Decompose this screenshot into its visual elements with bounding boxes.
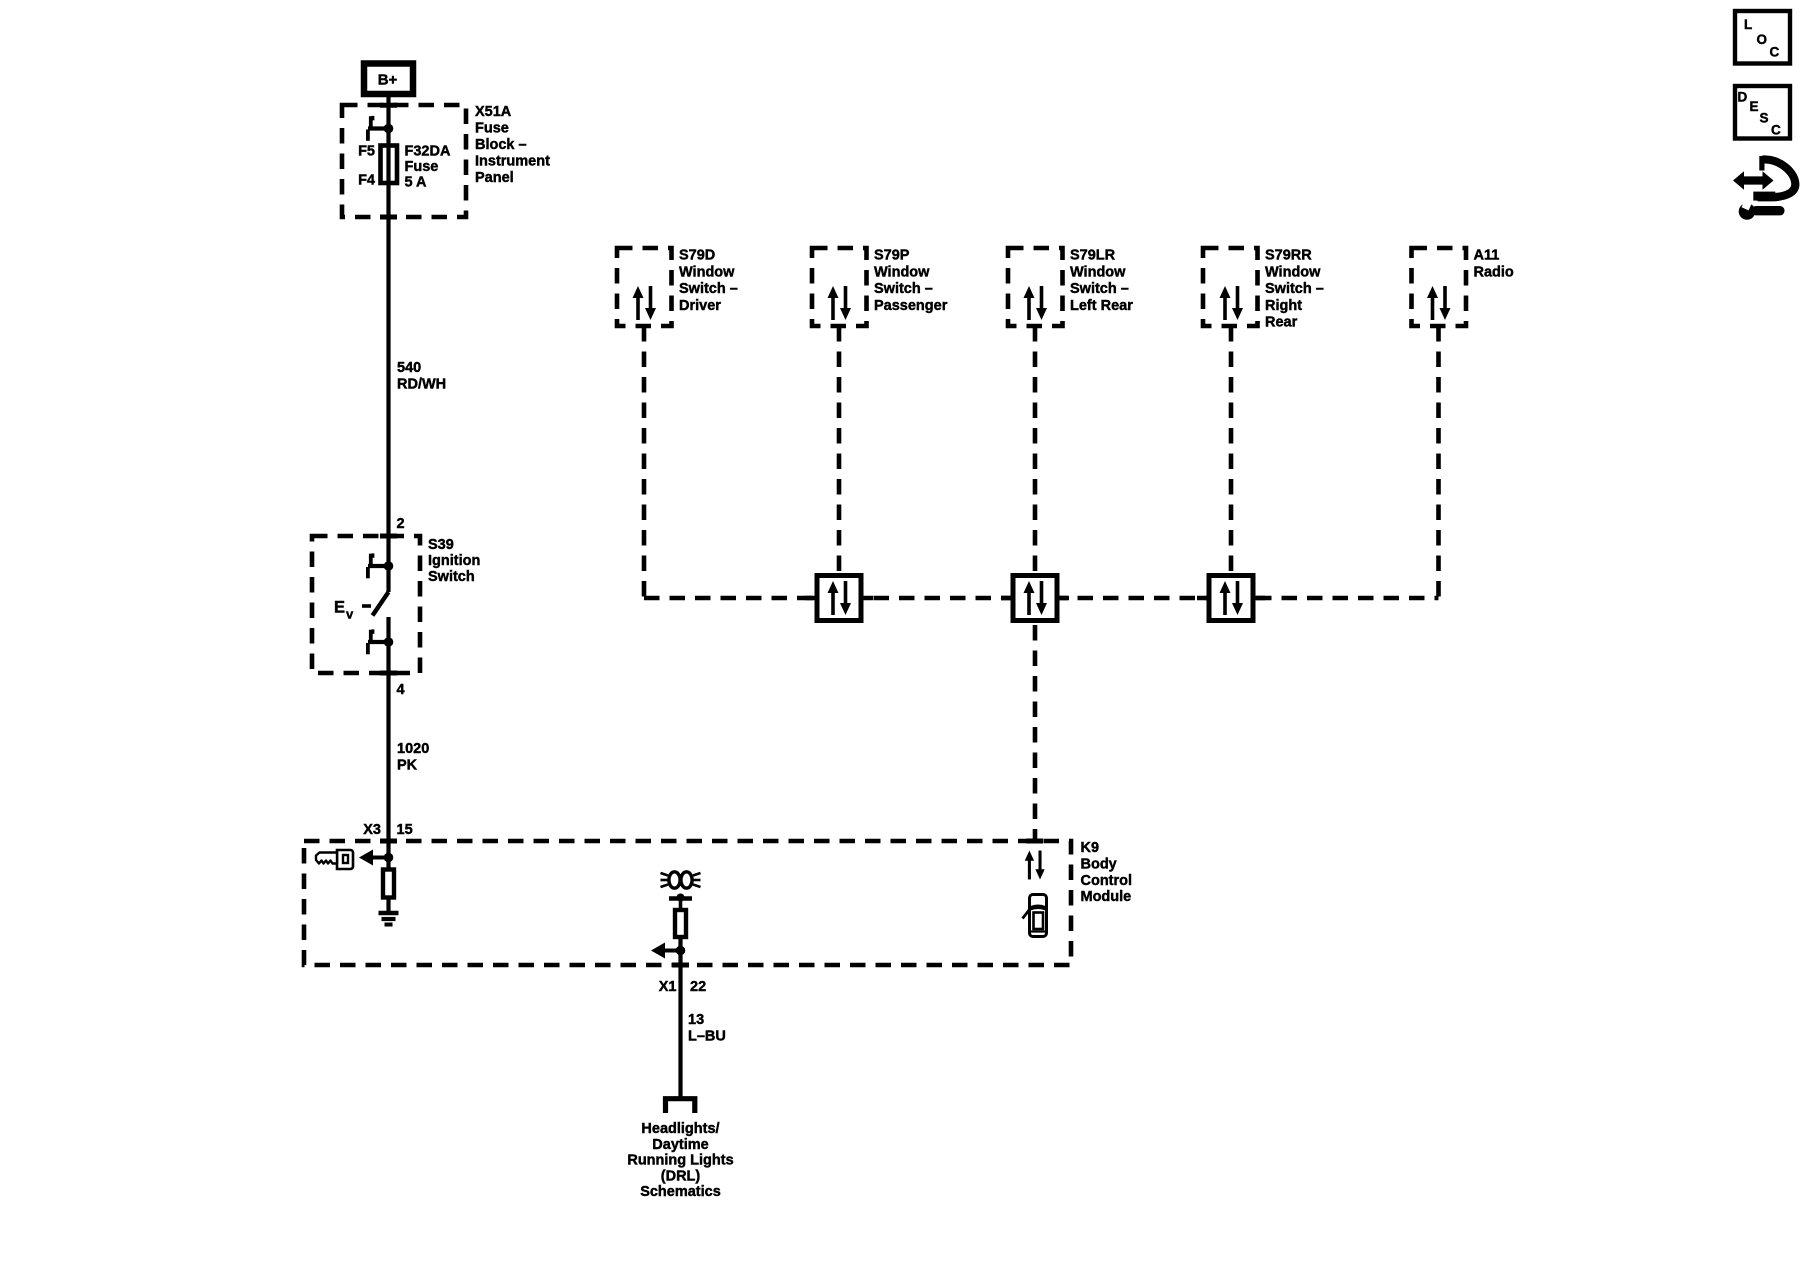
svg-text:A11: A11 [1474, 248, 1500, 264]
LOC reference box [1735, 11, 1790, 64]
svg-text:(DRL): (DRL) [661, 1168, 701, 1184]
junction below B+ [384, 124, 394, 134]
svg-text:2: 2 [397, 516, 405, 532]
component box S79LR [1008, 248, 1063, 326]
component box S79P [812, 248, 867, 326]
label S79D [679, 248, 738, 314]
dashed serial data line [644, 596, 1439, 601]
svg-text:O: O [1757, 32, 1768, 47]
svg-text:Rear: Rear [1265, 315, 1298, 331]
label Headlights/Daytime Running Lights (DRL) Schematics [627, 1121, 733, 1200]
svg-text:Schematics: Schematics [640, 1184, 721, 1200]
DRL indicator lamp icon [661, 872, 701, 888]
svg-text:S79LR: S79LR [1070, 248, 1116, 264]
battery feed B+ [364, 64, 413, 95]
svg-text:X1: X1 [659, 979, 677, 995]
svg-text:C: C [1770, 45, 1780, 60]
component box S79RR [1203, 248, 1258, 326]
svg-text:13: 13 [688, 1012, 704, 1028]
svg-text:Fuse: Fuse [405, 159, 439, 175]
up/down arrows in S79LR [1024, 286, 1048, 320]
svg-text:Block –: Block – [475, 137, 527, 153]
svg-text:Switch –: Switch – [1070, 281, 1129, 297]
left arrow at DRL output [651, 943, 681, 959]
wire ignition switch to BCM (1020 PK) [386, 617, 390, 868]
svg-text:X51A: X51A [475, 104, 512, 120]
up/down arrows in A11 [1427, 286, 1451, 320]
svg-text:22: 22 [690, 979, 706, 995]
svg-text:F4: F4 [358, 173, 375, 189]
svg-text:Switch –: Switch – [679, 281, 738, 297]
ignition key icon [316, 850, 353, 869]
internal ground [379, 913, 399, 925]
connector hook lower contact [368, 629, 389, 654]
vehicle icon in K9 [1023, 895, 1047, 937]
svg-text:15: 15 [397, 822, 413, 838]
up/down arrows in S79P [828, 286, 852, 320]
svg-text:Switch –: Switch – [874, 281, 933, 297]
svg-text:F5: F5 [358, 144, 375, 160]
svg-text:Headlights/: Headlights/ [641, 1121, 719, 1137]
dashed line below S79RR [1229, 326, 1234, 571]
wire label 540 RD/WH [397, 360, 446, 393]
fuse F32DA 5A [381, 146, 398, 184]
svg-text:PK: PK [397, 758, 418, 774]
dashed line below A11 [1436, 326, 1441, 598]
svg-text:S79RR: S79RR [1265, 248, 1312, 264]
svg-text:Right: Right [1265, 298, 1302, 314]
junction ignition input [384, 853, 394, 863]
svg-text:Body: Body [1081, 856, 1117, 872]
svg-text:Panel: Panel [475, 170, 514, 186]
svg-text:Switch –: Switch – [1265, 281, 1324, 297]
svg-text:E: E [1750, 99, 1759, 114]
window motor symbol S79LR [1001, 576, 1069, 621]
svg-text:4: 4 [397, 682, 405, 698]
svg-text:Window: Window [874, 264, 930, 280]
left arrow at ignition input [359, 850, 389, 866]
svg-text:1020: 1020 [397, 741, 429, 757]
wire label 13 L-BU [688, 1012, 726, 1045]
window motor symbol S79RR [1197, 576, 1265, 621]
window motor symbol S79P [805, 576, 873, 621]
dashed line below S79LR [1033, 326, 1038, 571]
svg-text:Passenger: Passenger [874, 298, 948, 314]
DESC reference box [1735, 86, 1790, 139]
connector hook upper contact [368, 553, 389, 578]
body control module K9 dashed box [304, 841, 1071, 965]
up/down arrows in S79D [633, 286, 657, 320]
svg-text:Window: Window [1070, 264, 1126, 280]
svg-text:D: D [1738, 90, 1748, 105]
wire DRL output (13 L-BU) [678, 937, 682, 1098]
off-page connector bracket [666, 1099, 695, 1113]
dashed line S79LR to K9 [1033, 625, 1038, 841]
svg-text:Ignition: Ignition [428, 553, 480, 569]
wire label 1020 PK [397, 741, 429, 774]
svg-text:540: 540 [397, 360, 421, 376]
wire B+ to ignition switch (540 RD/WH) [386, 95, 390, 592]
svg-text:5 A: 5 A [405, 175, 428, 191]
label F32DA Fuse 5A [405, 144, 451, 191]
svg-text:Left Rear: Left Rear [1070, 298, 1133, 314]
svg-text:v: v [346, 607, 354, 622]
junction upper contact S39 [384, 561, 394, 571]
component box S79D [617, 248, 672, 326]
junction lower contact S39 [384, 637, 394, 647]
label S39 Ignition Switch [428, 537, 480, 585]
svg-text:S: S [1760, 111, 1769, 126]
fuse block X51A dashed box [342, 105, 466, 217]
svg-text:Driver: Driver [679, 298, 721, 314]
svg-text:L–BU: L–BU [688, 1029, 726, 1045]
svg-text:Daytime: Daytime [652, 1137, 708, 1153]
svg-text:RD/WH: RD/WH [397, 377, 446, 393]
up/down arrows at K9 serial data input [1025, 851, 1045, 880]
junction DRL output [676, 946, 686, 956]
svg-text:X3: X3 [363, 822, 381, 838]
svg-text:B+: B+ [378, 72, 398, 89]
svg-text:Window: Window [1265, 264, 1321, 280]
svg-text:Instrument: Instrument [475, 154, 550, 170]
svg-text:S79D: S79D [679, 248, 715, 264]
svg-text:Radio: Radio [1474, 264, 1514, 280]
svg-text:Module: Module [1081, 889, 1132, 905]
label S79P [874, 248, 948, 314]
lamp terminal bar [669, 894, 692, 911]
svg-text:S79P: S79P [874, 248, 910, 264]
ignition switch S39 dashed box [312, 536, 420, 673]
resistor in DRL branch [675, 910, 686, 937]
label K9 Body Control Module [1081, 840, 1133, 905]
component box A11 [1412, 248, 1467, 326]
connector hook at fuse block feed [368, 116, 389, 141]
label S79RR [1265, 248, 1324, 331]
resistor inside K9 (ignition pull-down) [383, 870, 394, 898]
label X51A Fuse Block - Instrument Panel [475, 104, 550, 186]
svg-text:F32DA: F32DA [405, 144, 451, 160]
svg-text:Fuse: Fuse [475, 121, 509, 137]
svg-text:L: L [1744, 17, 1752, 32]
up/down arrows in S79RR [1220, 286, 1244, 320]
svg-text:E: E [334, 599, 345, 617]
svg-text:Running Lights: Running Lights [627, 1153, 733, 1169]
wire to internal ground [386, 898, 390, 912]
svg-text:Control: Control [1081, 873, 1133, 889]
svg-text:K9: K9 [1081, 840, 1100, 856]
label A11 [1474, 248, 1514, 281]
svg-text:C: C [1771, 123, 1781, 138]
switch blade (open) [373, 592, 389, 616]
svg-text:Switch: Switch [428, 569, 475, 585]
navigation/tools icon [1733, 156, 1795, 220]
label S79LR [1070, 248, 1133, 314]
dashed line below S79D [642, 326, 647, 598]
svg-text:Window: Window [679, 264, 735, 280]
svg-text:S39: S39 [428, 537, 454, 553]
dashed line below S79P [837, 326, 842, 571]
